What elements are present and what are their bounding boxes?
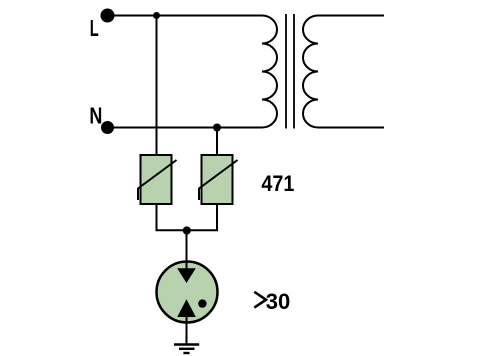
junction node on L line bbox=[153, 12, 160, 19]
wire from N junction down to RV2 bbox=[216, 128, 218, 156]
wire RV1 bottom bbox=[156, 204, 158, 230]
svg-text:471: 471 bbox=[261, 171, 294, 196]
varistor RV2 (471) bbox=[199, 155, 238, 204]
wire secondary top lead bbox=[318, 15, 384, 17]
GDT bottom electrode (up triangle) bbox=[177, 299, 196, 317]
wire from L junction down to RV1 (crosses N line, no connection) bbox=[156, 16, 158, 156]
wire RV2 bottom bbox=[216, 204, 218, 230]
wire bus to GDT top electrode bbox=[186, 230, 188, 269]
svg-text:30: 30 bbox=[266, 289, 291, 314]
ground symbol bbox=[174, 345, 199, 354]
svg-text:L: L bbox=[90, 15, 99, 41]
wire GDT to ground bbox=[186, 317, 188, 344]
terminal N bbox=[101, 121, 114, 134]
wire secondary bottom lead bbox=[318, 127, 384, 129]
gas discharge tube GDT body bbox=[157, 262, 218, 323]
GDT gas indicator dot bbox=[198, 299, 206, 307]
wire N line bbox=[108, 127, 263, 129]
varistor RV1 (471) bbox=[138, 155, 177, 204]
GDT top electrode (down triangle) bbox=[177, 268, 196, 283]
junction node on bus bbox=[183, 226, 191, 234]
transformer T1 core bbox=[285, 14, 287, 129]
svg-text:N: N bbox=[89, 102, 102, 128]
wire bottom bus bbox=[156, 229, 219, 231]
wire L line bbox=[108, 15, 263, 17]
transformer T1 secondary winding bbox=[303, 16, 318, 128]
label >30 bbox=[254, 292, 266, 308]
transformer T1 primary winding bbox=[262, 16, 277, 128]
junction node on N line bbox=[213, 124, 221, 132]
terminal L bbox=[101, 9, 115, 23]
